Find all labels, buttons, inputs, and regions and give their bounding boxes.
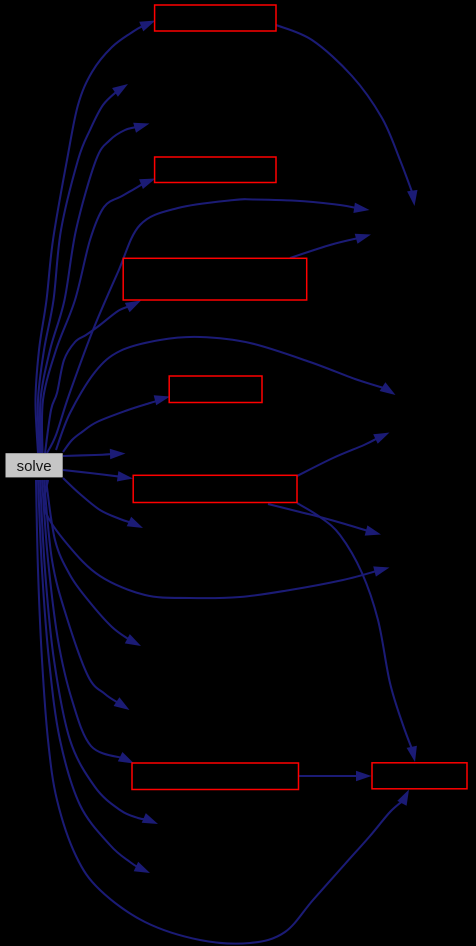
edge B5->B7t [297,503,417,762]
edge solve->N5 [46,480,141,646]
node B3 [123,258,307,300]
edge solve->B4 [63,395,170,452]
edge solve->N2 [40,123,150,453]
edge B5->N14 [268,504,381,536]
edge B3->N9 [290,234,371,258]
edge solve->B6 [42,480,134,764]
edge solve->N8 [47,199,370,453]
edge solve->N6 [44,480,130,710]
edge solve->N12 [40,480,158,824]
node B1 [155,5,276,31]
node B5 [133,475,297,502]
edge solve->B2 [42,179,156,454]
node B7 [372,763,467,789]
node B6 [132,763,299,790]
edge solve->N15 [44,480,390,598]
edge solve->N13 [38,480,150,873]
edge B6->B7 [299,771,372,781]
edge solve->B1 [35,21,155,454]
node B4 [169,376,262,403]
edge solve->N3 [63,449,126,460]
svg-text:solve: solve [17,458,52,475]
edge B1->N7 [276,25,418,206]
edge solve->B3 [45,301,141,454]
edge solve->B7b [36,480,409,944]
edge solve->B5 [63,470,133,482]
node B2 [155,157,276,183]
node solve [6,453,63,477]
edge solve->N10 [56,337,396,450]
edge solve->N1 [38,84,128,453]
edge B5->N11 [297,433,390,477]
edge solve->N4 [63,478,143,528]
